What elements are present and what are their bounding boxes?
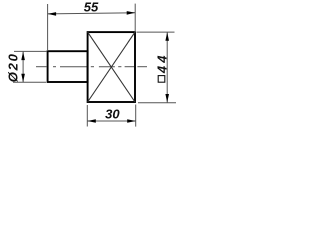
dim 55 extension line right	[134, 4, 136, 32]
dim 44 square symbol	[158, 76, 165, 83]
dim 20 extension line top	[14, 50, 47, 52]
shaft outline	[48, 51, 88, 82]
centerline	[36, 66, 147, 68]
dim 44 arrow down	[165, 94, 169, 103]
dim 20 arrow up	[21, 52, 25, 61]
flange square outline	[88, 32, 135, 102]
dim 44 extension line top	[137, 31, 175, 33]
svg-text:Ø20: Ø20	[5, 52, 20, 82]
dim 30 extension line left	[86, 105, 88, 127]
dim 55 arrow left	[48, 12, 57, 16]
dim 44 dimension line	[166, 32, 168, 102]
dim 55 arrow right	[127, 11, 136, 15]
svg-text:44: 44	[154, 52, 169, 74]
dim 20 extension line bottom	[13, 81, 46, 83]
dim 30 arrow right	[127, 119, 136, 123]
dim 20 arrow down	[21, 74, 25, 83]
dim 44 extension line bottom	[138, 102, 176, 104]
dim 30 extension line right	[135, 105, 137, 127]
svg-text:30: 30	[105, 106, 120, 121]
dim 20 dimension line	[22, 52, 24, 83]
dim 55 extension line left	[47, 4, 49, 51]
diagonal 1	[88, 32, 135, 102]
dim 55 dimension line	[48, 13, 136, 14]
dim 30 dimension line	[87, 120, 135, 122]
svg-text:55: 55	[84, 0, 99, 15]
diagonal 2	[88, 32, 135, 102]
dim 30 arrow left	[87, 119, 96, 123]
dim 44 arrow up	[165, 32, 169, 41]
